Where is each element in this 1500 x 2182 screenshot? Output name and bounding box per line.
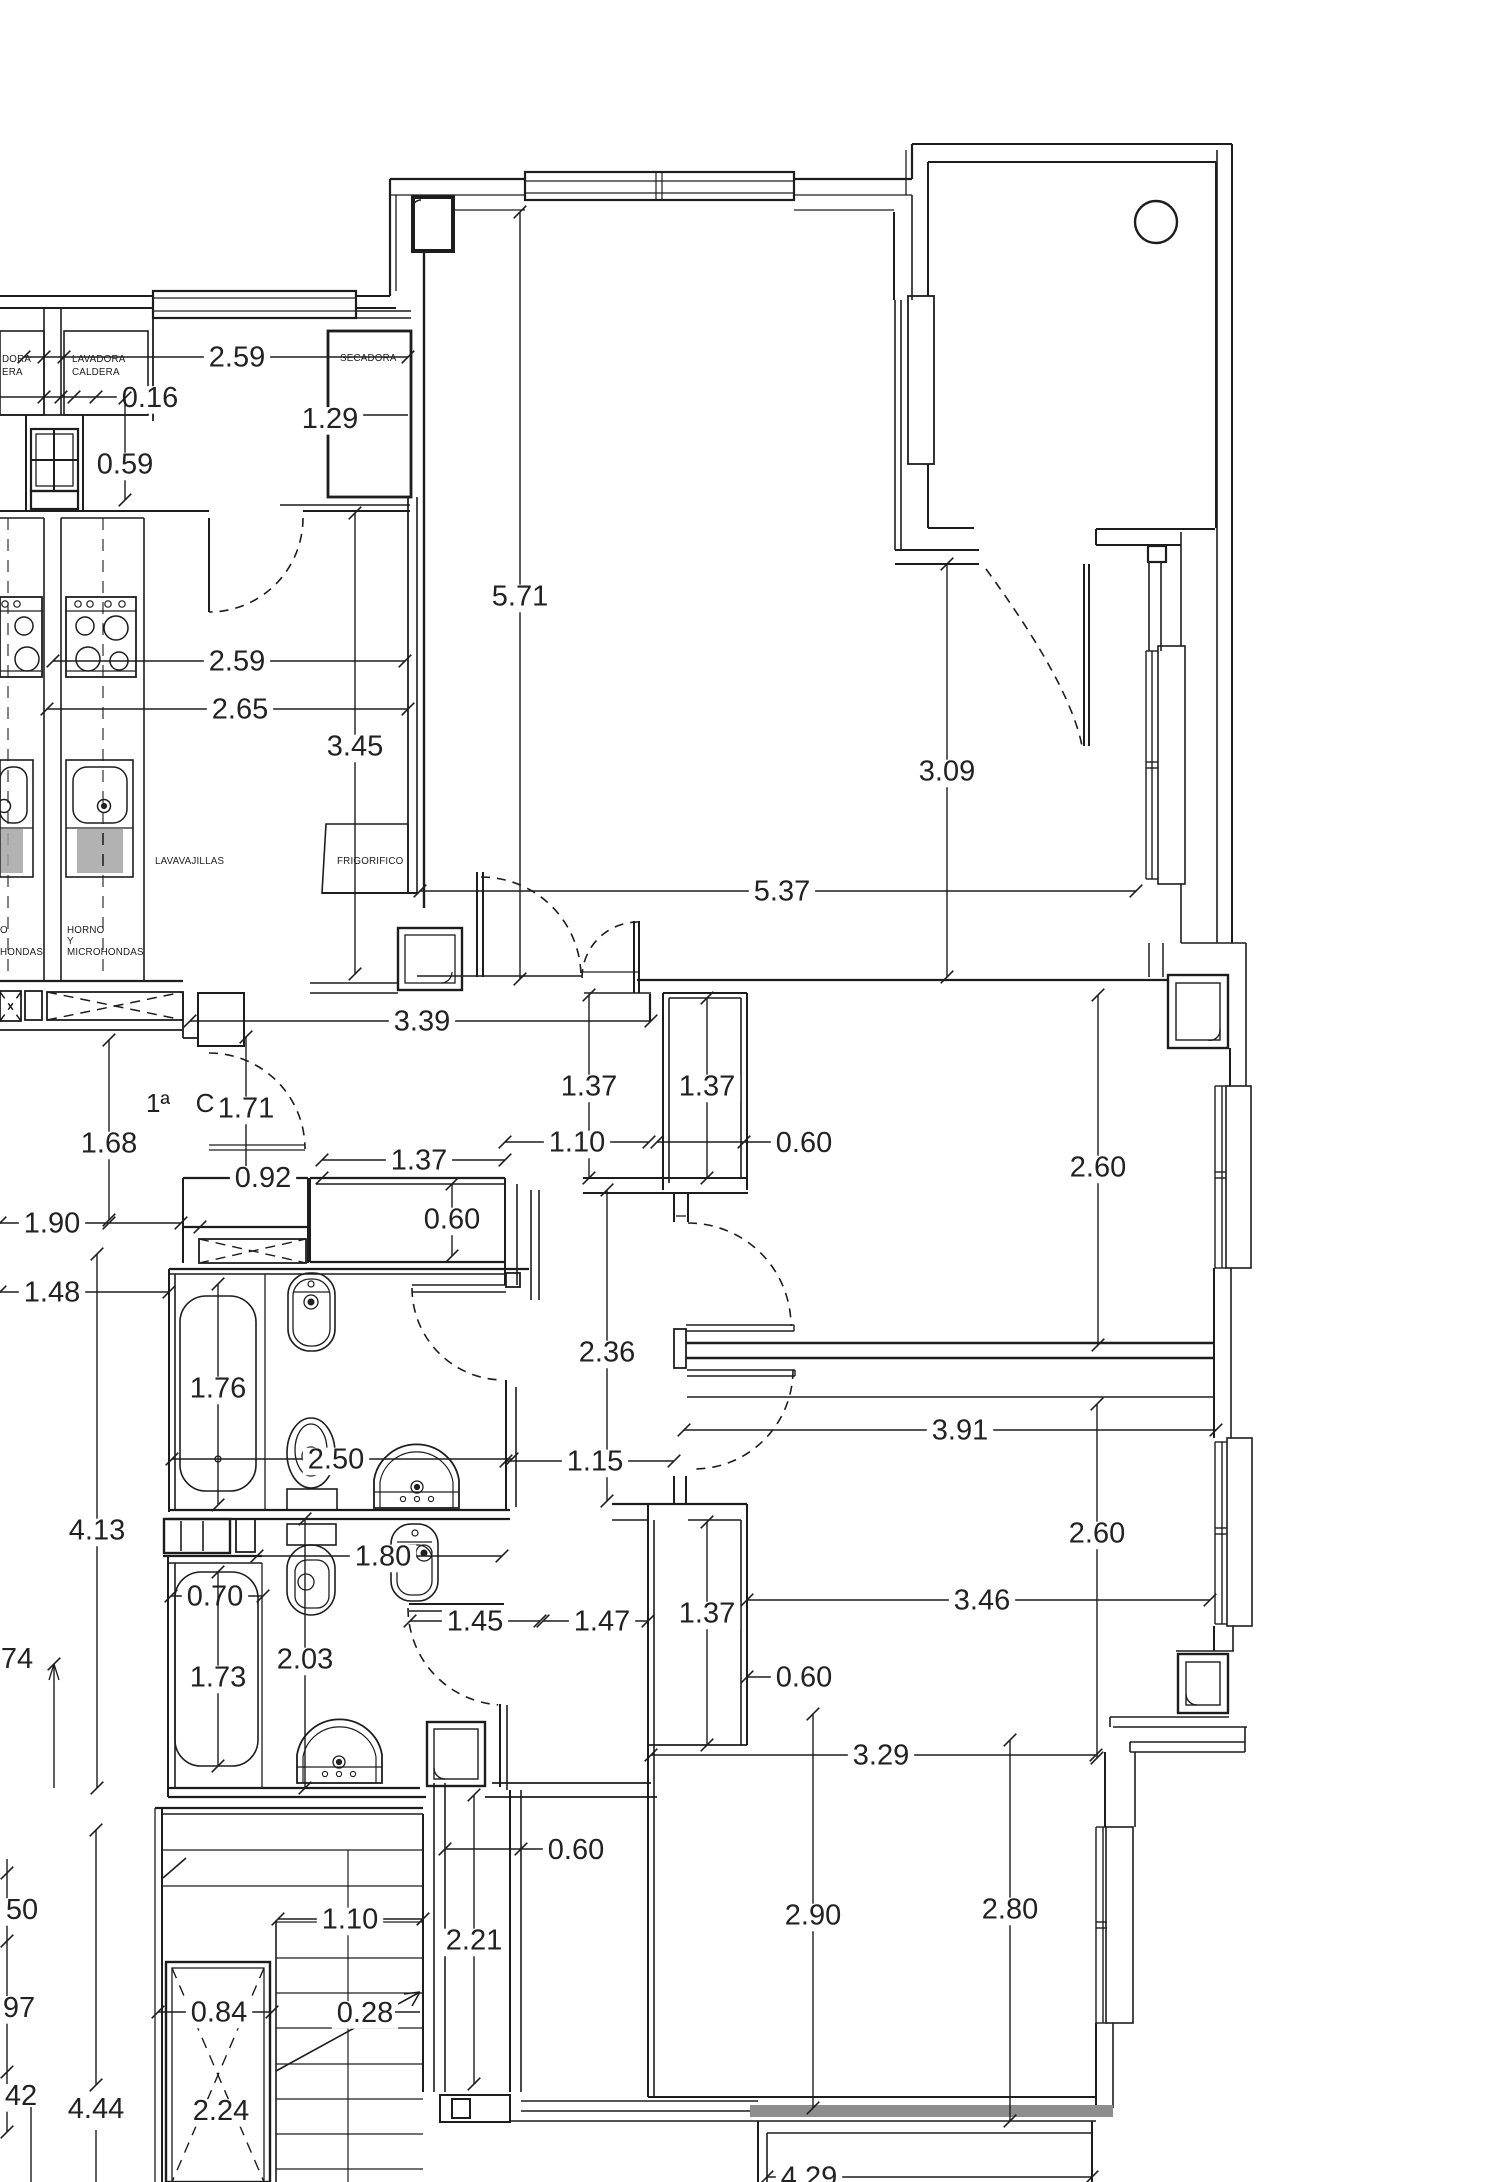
svg-text:1.45: 1.45 — [447, 1606, 503, 1638]
svg-text:1.37: 1.37 — [561, 1071, 617, 1103]
svg-text:2.65: 2.65 — [212, 694, 268, 726]
svg-text:3.91: 3.91 — [932, 1415, 988, 1447]
svg-text:2.36: 2.36 — [579, 1337, 635, 1369]
svg-text:1.90: 1.90 — [24, 1208, 80, 1240]
svg-text:LAVAVAJILLAS: LAVAVAJILLAS — [155, 856, 224, 867]
svg-text:ERA: ERA — [2, 367, 23, 378]
svg-text:DORA: DORA — [2, 354, 31, 365]
svg-text:SECADORA: SECADORA — [340, 353, 397, 364]
svg-text:2.60: 2.60 — [1069, 1518, 1125, 1550]
svg-text:0.92: 0.92 — [235, 1162, 291, 1194]
svg-text:FRIGORIFICO: FRIGORIFICO — [337, 856, 404, 867]
svg-text:0.60: 0.60 — [776, 1127, 832, 1159]
svg-text:HONDAS: HONDAS — [0, 947, 43, 958]
svg-text:0.60: 0.60 — [776, 1662, 832, 1694]
svg-text:0.60: 0.60 — [424, 1204, 480, 1236]
svg-text:1.68: 1.68 — [81, 1128, 137, 1160]
svg-text:C: C — [196, 1088, 215, 1118]
svg-text:3.39: 3.39 — [394, 1006, 450, 1038]
svg-text:5.37: 5.37 — [754, 876, 810, 908]
svg-text:2.80: 2.80 — [982, 1894, 1038, 1926]
svg-text:0.59: 0.59 — [97, 449, 153, 481]
svg-text:CALDERA: CALDERA — [72, 367, 120, 378]
svg-text:0.60: 0.60 — [548, 1834, 604, 1866]
svg-text:2.24: 2.24 — [193, 2095, 249, 2127]
svg-text:LAVADORA: LAVADORA — [72, 354, 126, 365]
svg-text:5.71: 5.71 — [492, 581, 548, 613]
svg-text:4.44: 4.44 — [68, 2093, 124, 2125]
svg-text:2.03: 2.03 — [277, 1644, 333, 1676]
svg-text:1.76: 1.76 — [190, 1373, 246, 1405]
svg-text:1.37: 1.37 — [679, 1598, 735, 1630]
svg-text:1.80: 1.80 — [355, 1541, 411, 1573]
svg-text:1.15: 1.15 — [567, 1446, 623, 1478]
svg-text:2.59: 2.59 — [209, 342, 265, 374]
svg-text:1.10: 1.10 — [549, 1127, 605, 1159]
svg-text:3.46: 3.46 — [954, 1585, 1010, 1617]
svg-text:1.73: 1.73 — [190, 1662, 246, 1694]
svg-text:1.37: 1.37 — [391, 1145, 447, 1177]
svg-text:50: 50 — [6, 1894, 38, 1926]
svg-text:2.21: 2.21 — [446, 1925, 502, 1957]
svg-text:1.47: 1.47 — [574, 1606, 630, 1638]
svg-text:2.90: 2.90 — [785, 1900, 841, 1932]
svg-text:1.71: 1.71 — [218, 1093, 274, 1125]
svg-text:2.50: 2.50 — [308, 1444, 364, 1476]
svg-text:1.37: 1.37 — [679, 1071, 735, 1103]
svg-text:0.84: 0.84 — [191, 1997, 247, 2029]
svg-text:O: O — [0, 925, 8, 936]
svg-text:1.29: 1.29 — [302, 403, 358, 435]
svg-text:MICROHONDAS: MICROHONDAS — [67, 947, 144, 958]
svg-text:3.09: 3.09 — [919, 756, 975, 788]
svg-text:1ª: 1ª — [146, 1088, 170, 1118]
svg-text:1.48: 1.48 — [24, 1277, 80, 1309]
svg-text:2.59: 2.59 — [209, 646, 265, 678]
svg-text:4.13: 4.13 — [69, 1515, 125, 1547]
svg-text:74: 74 — [1, 1643, 33, 1675]
svg-text:Y: Y — [67, 936, 74, 947]
svg-text:4.29: 4.29 — [781, 2162, 837, 2182]
svg-text:0.28: 0.28 — [337, 1997, 393, 2029]
svg-text:0.70: 0.70 — [187, 1581, 243, 1613]
svg-text:42: 42 — [5, 2080, 37, 2112]
svg-text:0.16: 0.16 — [122, 382, 178, 414]
svg-text:2.60: 2.60 — [1070, 1152, 1126, 1184]
svg-text:97: 97 — [3, 1992, 35, 2024]
svg-text:1.10: 1.10 — [322, 1904, 378, 1936]
svg-text:HORNO: HORNO — [67, 925, 105, 936]
svg-text:3.45: 3.45 — [327, 731, 383, 763]
svg-text:3.29: 3.29 — [853, 1740, 909, 1772]
